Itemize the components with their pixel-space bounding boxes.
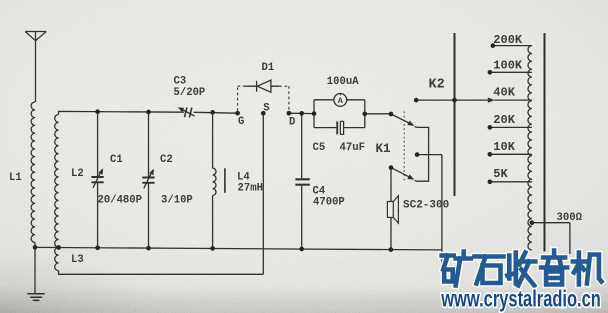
svg-text:www.crystalradio.cn: www.crystalradio.cn [440,287,600,312]
